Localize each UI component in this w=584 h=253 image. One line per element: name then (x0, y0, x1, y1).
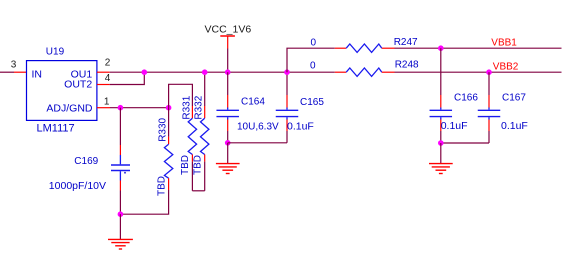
svg-text:VBB2: VBB2 (493, 62, 519, 73)
capacitor C164 (216, 72, 239, 143)
node C164 gnd junction (225, 140, 231, 146)
wire C165 gnd link (228, 142, 287, 144)
svg-text:0.1uF: 0.1uF (441, 120, 468, 132)
svg-text:0: 0 (310, 60, 316, 71)
regulator U19 (LM1117) body (27, 61, 97, 121)
capacitor C169 (111, 108, 130, 215)
svg-text:R330: R330 (158, 117, 169, 141)
wire IN net from left edge (0, 71, 14, 73)
svg-text:R248: R248 (395, 60, 419, 71)
svg-text:C164: C164 (241, 97, 265, 108)
svg-text:4: 4 (105, 73, 111, 84)
svg-text:1000pF/10V: 1000pF/10V (49, 180, 106, 192)
node VBB2-C167 junction (486, 69, 492, 75)
wire branch up to R247 (287, 48, 335, 72)
svg-text:ADJ/GND: ADJ/GND (46, 102, 93, 114)
pin 1 stub of U19 (97, 107, 110, 109)
node R332 rail junction (202, 69, 208, 75)
node C169-R330 gnd junction (118, 211, 124, 217)
svg-text:3: 3 (11, 60, 17, 71)
wire ADJ to R331 bracket (169, 84, 193, 107)
svg-text:C169: C169 (74, 156, 98, 167)
node C166 gnd junction (438, 140, 444, 146)
wire main rail OUT1 (110, 71, 335, 73)
pin 4 stub of U19 (97, 84, 110, 86)
node VBB1-C166 junction (438, 45, 444, 51)
ground under C164 (216, 143, 240, 174)
svg-text:IN: IN (32, 68, 43, 80)
node VCC junction (225, 69, 231, 75)
svg-text:C166: C166 (454, 93, 478, 104)
svg-text:0.1uF: 0.1uF (501, 120, 528, 132)
pin 3 stub of U19 (14, 71, 27, 73)
resistor R332 top wire (204, 72, 206, 106)
svg-text:TBD: TBD (180, 155, 191, 175)
wire rail right of R248 (395, 71, 562, 73)
svg-text:C165: C165 (300, 97, 324, 108)
power symbol VCC_1V6 (220, 36, 235, 49)
svg-text:TBD: TBD (157, 176, 168, 196)
svg-text:2: 2 (105, 57, 111, 68)
ground under C166 (429, 143, 453, 174)
svg-text:LM1117: LM1117 (37, 122, 75, 134)
wire ADJ net (110, 107, 169, 109)
svg-text:OUT2: OUT2 (64, 79, 92, 91)
wire VCC stem (227, 49, 229, 73)
node C165 rail junction (284, 69, 290, 75)
wire VBB1 (395, 47, 562, 49)
resistor R330 (120, 108, 172, 215)
wire OUT2 jog (110, 72, 145, 84)
svg-text:VCC_1V6: VCC_1V6 (205, 24, 252, 36)
wire C166-C167 gnd link (441, 142, 489, 144)
svg-text:1: 1 (104, 96, 110, 107)
svg-text:R247: R247 (394, 37, 418, 48)
svg-text:0.1uF: 0.1uF (287, 120, 314, 132)
wire R331-R332 bottom bracket (192, 190, 204, 192)
resistor R248 (335, 68, 395, 76)
pin 2 stub of U19 (97, 71, 110, 73)
capacitor C166 (430, 48, 453, 143)
node OUT2 junction (142, 69, 148, 75)
svg-text:VBB1: VBB1 (491, 38, 517, 49)
capacitor C165 (276, 72, 299, 143)
capacitor C167 (478, 72, 501, 143)
svg-text:10U,6.3V: 10U,6.3V (237, 121, 279, 132)
svg-text:0: 0 (311, 37, 317, 48)
ground under C169 (108, 214, 133, 249)
svg-text:U19: U19 (46, 46, 65, 57)
resistor R331 (188, 106, 196, 191)
resistor R332 (201, 106, 209, 191)
svg-text:R332: R332 (194, 95, 205, 119)
node ADJ-R330 junction (166, 105, 172, 111)
svg-text:R331: R331 (182, 95, 193, 119)
node ADJ-C169 junction (118, 105, 124, 111)
resistor R247 (335, 44, 395, 52)
svg-text:C167: C167 (502, 93, 526, 104)
svg-text:TBD: TBD (193, 155, 204, 175)
